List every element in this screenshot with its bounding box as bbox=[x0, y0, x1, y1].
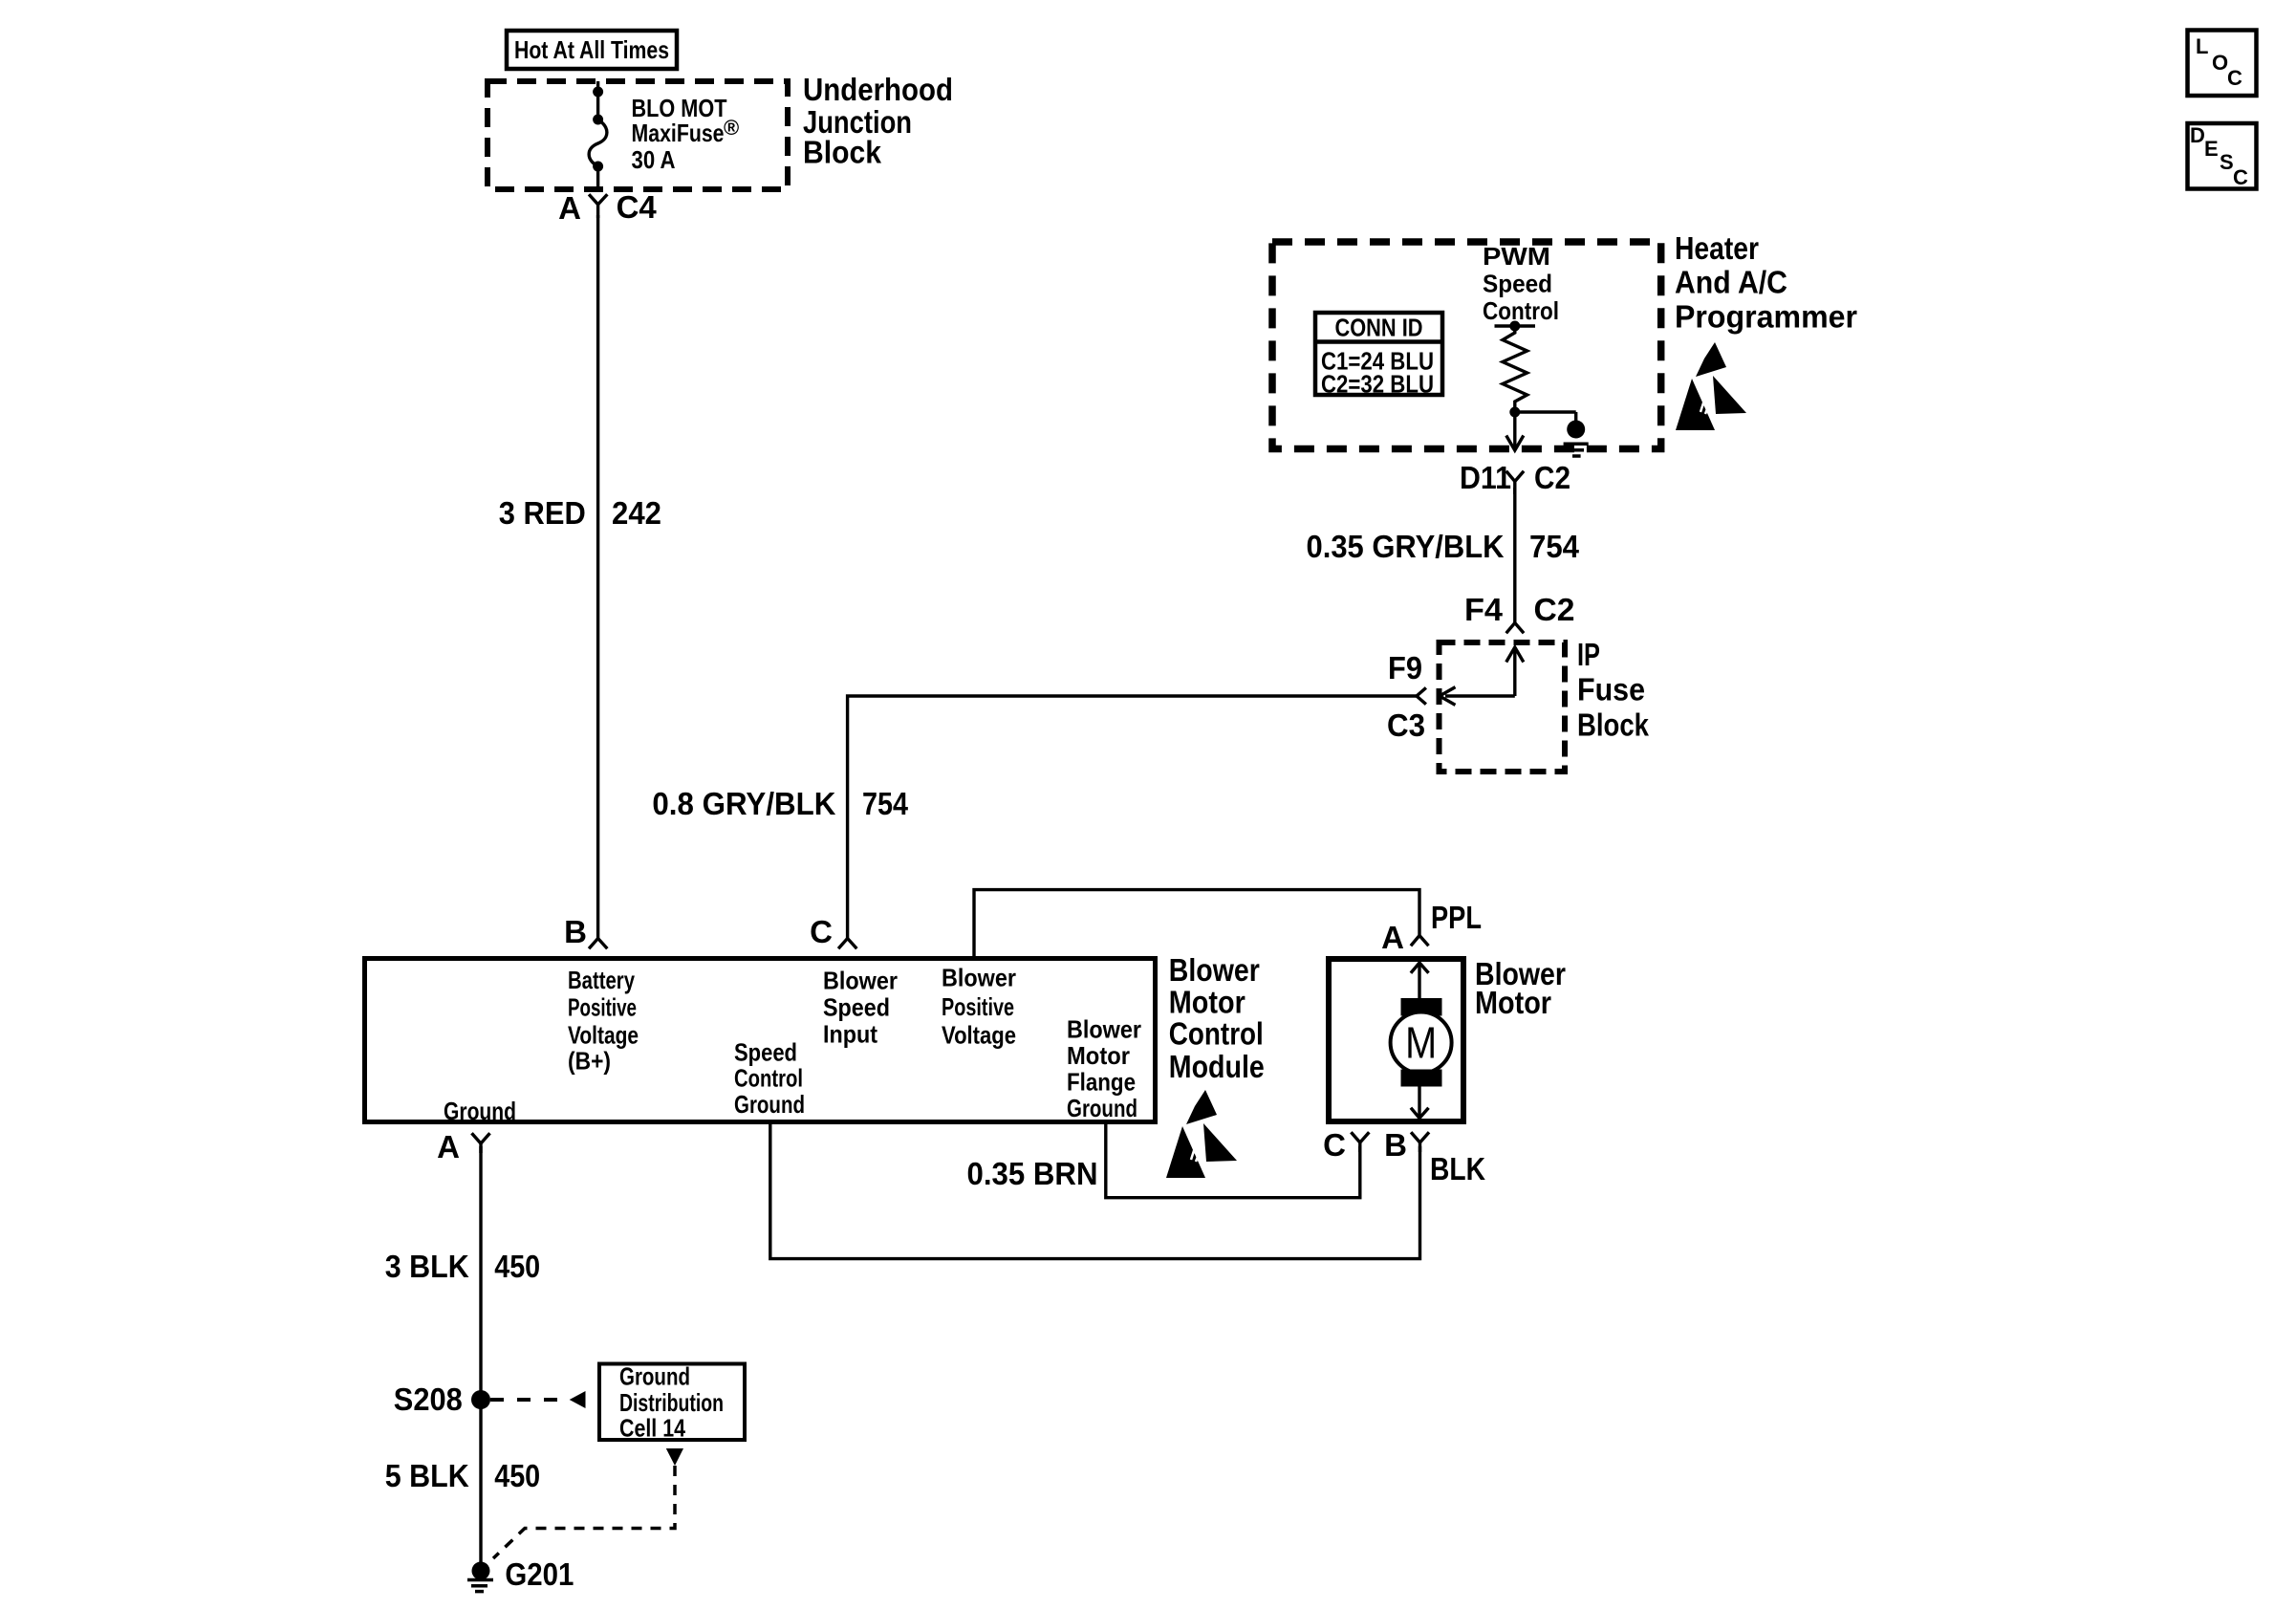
svg-text:F9: F9 bbox=[1388, 650, 1422, 685]
svg-text:Programmer: Programmer bbox=[1675, 299, 1857, 335]
module pin text: Blower Speed Input bbox=[823, 967, 898, 1049]
svg-text:L: L bbox=[2196, 34, 2208, 58]
connector D11 / C2 (fork) bbox=[1507, 472, 1523, 494]
svg-text:Flange: Flange bbox=[1067, 1068, 1136, 1097]
svg-text:C: C bbox=[2233, 165, 2248, 189]
svg-text:0.35 GRY/BLK: 0.35 GRY/BLK bbox=[1307, 529, 1505, 564]
svg-text:C2: C2 bbox=[1534, 460, 1570, 495]
wire 3 RED 242 (fuse to module B) bbox=[596, 215, 599, 939]
module pin text: Blower Positive Voltage bbox=[942, 964, 1016, 1050]
svg-text:Cell 14: Cell 14 bbox=[619, 1414, 685, 1443]
svg-text:C: C bbox=[1323, 1127, 1346, 1163]
svg-text:Control: Control bbox=[734, 1064, 803, 1093]
svg-text:PWM: PWM bbox=[1483, 242, 1550, 271]
svg-text:M: M bbox=[1405, 1018, 1437, 1068]
label: Heater And A/C Programmer bbox=[1675, 230, 1857, 335]
svg-text:Underhood: Underhood bbox=[803, 72, 953, 107]
connector B (fork) at module bbox=[590, 939, 606, 948]
label: PWM Speed Control bbox=[1483, 242, 1559, 325]
svg-text:C2: C2 bbox=[1534, 592, 1575, 627]
PWM speed control node (bar + dot) bbox=[1495, 321, 1536, 332]
blower motor (box) bbox=[1329, 959, 1463, 1121]
wire 3 BLK 450 / 5 BLK 450 (module ground to G201) bbox=[479, 1146, 482, 1562]
connector B (fork) below motor bbox=[1412, 1134, 1428, 1153]
ground G201 symbol bbox=[467, 1562, 493, 1592]
svg-text:D: D bbox=[2190, 123, 2205, 147]
svg-text:Input: Input bbox=[823, 1020, 877, 1049]
heater and a/c programmer (dashed box) bbox=[1272, 242, 1661, 449]
fuse F9 internal link (up arrow) bbox=[1507, 647, 1523, 696]
internal ground symbol bbox=[1564, 421, 1589, 457]
svg-text:B: B bbox=[1384, 1127, 1407, 1163]
svg-text:Ground: Ground bbox=[619, 1362, 690, 1391]
svg-text:Control: Control bbox=[1483, 296, 1559, 325]
svg-text:Blower: Blower bbox=[1067, 1015, 1141, 1044]
DESC reference box bbox=[2188, 123, 2257, 189]
dashed reference line to G201 bbox=[493, 1466, 675, 1558]
svg-text:O: O bbox=[2212, 51, 2228, 75]
fuse BLO MOT MaxiFuse 30A bbox=[589, 81, 607, 192]
wire 0.35 BRN (flange ground to motor C) bbox=[1106, 1124, 1360, 1198]
connector A (fork) at blower motor bbox=[1412, 936, 1427, 946]
underhood junction block (dashed box) bbox=[487, 81, 788, 189]
connector F4 / C2 (fork) bbox=[1507, 623, 1523, 633]
svg-text:30 A: 30 A bbox=[632, 145, 676, 174]
wire 0.35 GRY/BLK 754 bbox=[1513, 488, 1516, 622]
label: IP Fuse Block bbox=[1577, 637, 1650, 742]
connector C (fork) at module bbox=[839, 939, 856, 948]
ESD sensitive icon (module) bbox=[1166, 1090, 1237, 1178]
svg-text:And A/C: And A/C bbox=[1675, 265, 1787, 300]
svg-text:Fuse: Fuse bbox=[1577, 672, 1645, 707]
blower motor control module (box) bbox=[365, 959, 1156, 1122]
svg-text:S: S bbox=[2220, 150, 2234, 174]
label: Blower Motor Control Module bbox=[1169, 952, 1265, 1084]
connector C (fork) below motor bbox=[1353, 1134, 1369, 1153]
svg-text:Voltage: Voltage bbox=[568, 1021, 639, 1050]
svg-text:Blower: Blower bbox=[1169, 952, 1260, 988]
svg-text:450: 450 bbox=[494, 1458, 540, 1493]
svg-text:C2=32 BLU: C2=32 BLU bbox=[1321, 370, 1434, 399]
connector A / C4 (fork) bbox=[590, 196, 606, 219]
svg-text:C: C bbox=[2227, 66, 2242, 90]
motor M symbol with brushes bbox=[1391, 963, 1452, 1119]
svg-text:Speed: Speed bbox=[1483, 270, 1552, 298]
svg-text:PPL: PPL bbox=[1431, 900, 1482, 935]
module pin text: Speed Control Ground bbox=[734, 1037, 805, 1119]
svg-text:Module: Module bbox=[1169, 1049, 1265, 1084]
svg-text:E: E bbox=[2204, 137, 2219, 161]
svg-text:Positive: Positive bbox=[942, 992, 1014, 1021]
svg-text:B: B bbox=[564, 914, 587, 949]
svg-text:IP: IP bbox=[1577, 637, 1600, 672]
CONN ID table bbox=[1313, 313, 1444, 399]
splice S208 (junction dot) bbox=[471, 1390, 490, 1409]
ESD sensitive icon (heater programmer) bbox=[1676, 342, 1746, 430]
svg-text:CONN ID: CONN ID bbox=[1335, 314, 1423, 342]
svg-text:Motor: Motor bbox=[1475, 985, 1551, 1020]
svg-text:®: ® bbox=[724, 116, 739, 140]
svg-text:0.35 BRN: 0.35 BRN bbox=[967, 1156, 1098, 1191]
svg-text:754: 754 bbox=[1529, 529, 1580, 564]
svg-text:3 RED: 3 RED bbox=[499, 495, 586, 531]
svg-text:G201: G201 bbox=[505, 1556, 574, 1592]
LOC reference box bbox=[2188, 31, 2257, 97]
svg-text:Heater: Heater bbox=[1675, 230, 1759, 266]
svg-text:C3: C3 bbox=[1387, 707, 1425, 743]
svg-text:F4: F4 bbox=[1464, 592, 1504, 627]
svg-text:Hot At All Times: Hot At All Times bbox=[514, 35, 669, 64]
module pin text: Blower Motor Flange Ground bbox=[1067, 1015, 1141, 1123]
svg-text:BLK: BLK bbox=[1430, 1151, 1485, 1186]
connector F9 / C3 (fork open right) bbox=[1417, 689, 1425, 704]
resistor (PWM speed control) bbox=[1503, 326, 1527, 412]
dashed reference line S208 to ground distribution bbox=[490, 1391, 586, 1408]
svg-text:Positive: Positive bbox=[568, 993, 637, 1022]
wire 0.8 GRY/BLK 754 (fuse block to module C) bbox=[848, 696, 1417, 939]
svg-text:Block: Block bbox=[1577, 707, 1650, 742]
label: Blower Motor bbox=[1475, 956, 1566, 1020]
module pin text: Battery Positive Voltage (B+) bbox=[568, 966, 639, 1076]
svg-text:450: 450 bbox=[494, 1249, 540, 1284]
svg-text:Ground: Ground bbox=[734, 1090, 805, 1119]
svg-text:Blower: Blower bbox=[942, 964, 1016, 992]
svg-text:Voltage: Voltage bbox=[942, 1021, 1016, 1050]
hot-at-all-times label box bbox=[507, 31, 677, 69]
svg-text:Motor: Motor bbox=[1169, 985, 1245, 1020]
svg-text:3 BLK: 3 BLK bbox=[385, 1249, 469, 1284]
svg-text:A: A bbox=[437, 1129, 460, 1164]
internal ground wire bbox=[1515, 412, 1576, 422]
svg-text:S208: S208 bbox=[394, 1382, 463, 1417]
wire PPL (module blower positive voltage to motor A) bbox=[974, 890, 1419, 956]
ip fuse block (dashed box) bbox=[1440, 642, 1566, 772]
label: Underhood Junction Block bbox=[803, 72, 953, 170]
svg-text:C4: C4 bbox=[617, 189, 658, 225]
svg-text:0.8 GRY/BLK: 0.8 GRY/BLK bbox=[652, 786, 835, 821]
junction dot bbox=[1509, 407, 1520, 418]
svg-text:Speed: Speed bbox=[823, 993, 890, 1022]
wire to D11 with down arrow bbox=[1507, 412, 1523, 450]
fuse block internal wire with left arrow bbox=[1440, 688, 1515, 705]
svg-text:A: A bbox=[1381, 920, 1404, 955]
connector A (fork) below module ground pin bbox=[473, 1135, 489, 1154]
svg-text:Ground: Ground bbox=[1067, 1094, 1137, 1122]
svg-text:Ground: Ground bbox=[444, 1097, 516, 1125]
fuse value label: BLO MOT MaxiFuse (R) 30 A bbox=[632, 94, 740, 174]
svg-text:A: A bbox=[558, 190, 581, 226]
svg-text:D11: D11 bbox=[1460, 460, 1511, 495]
svg-text:Distribution: Distribution bbox=[619, 1388, 724, 1417]
svg-text:MaxiFuse: MaxiFuse bbox=[632, 119, 725, 147]
svg-text:Block: Block bbox=[803, 135, 882, 170]
svg-text:(B+): (B+) bbox=[568, 1047, 611, 1076]
svg-text:C: C bbox=[810, 914, 833, 949]
svg-text:Battery: Battery bbox=[568, 966, 635, 994]
svg-text:754: 754 bbox=[862, 786, 909, 821]
svg-text:242: 242 bbox=[612, 495, 661, 531]
svg-text:Speed: Speed bbox=[734, 1037, 797, 1066]
arrow below ground distribution box bbox=[666, 1448, 683, 1466]
ground distribution cell 14 (box) bbox=[599, 1362, 745, 1443]
svg-text:Control: Control bbox=[1169, 1016, 1264, 1052]
svg-text:Blower: Blower bbox=[823, 967, 898, 995]
wire BLK (motor B to speed control ground) bbox=[770, 1124, 1420, 1259]
svg-text:5 BLK: 5 BLK bbox=[385, 1458, 469, 1493]
svg-text:Motor: Motor bbox=[1067, 1041, 1130, 1070]
